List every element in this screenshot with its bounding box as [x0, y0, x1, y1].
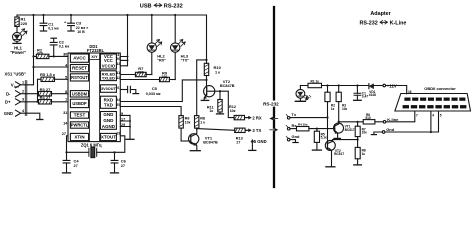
resistor R8 — [195, 116, 206, 129]
svg-text:8: 8 — [65, 90, 67, 94]
pin 4 GND — [16, 110, 21, 116]
pin TEST box — [70, 112, 88, 118]
resistor R9 — [120, 70, 175, 81]
capacitor C4 — [63, 151, 80, 173]
svg-text:0,1 мк: 0,1 мк — [48, 27, 59, 31]
node Tx terminal — [286, 112, 328, 119]
transistor VT2 (right) BC817 — [325, 140, 344, 167]
svg-text:10 В: 10 В — [77, 30, 85, 34]
svg-text:"TX": "TX" — [181, 59, 190, 63]
resistor R1 (right) — [308, 79, 322, 87]
capacitor C5 — [120, 86, 160, 96]
svg-text:Gnd: Gnd — [386, 127, 395, 132]
svg-text:GND: GND — [4, 111, 13, 116]
left pin numbers — [62, 53, 68, 136]
svg-text:3V3OUT: 3V3OUT — [101, 87, 116, 91]
svg-text:3: 3 — [22, 98, 24, 102]
svg-text:R4 27: R4 27 — [40, 95, 51, 100]
svg-text:27: 27 — [236, 140, 240, 144]
svg-text:28: 28 — [116, 131, 120, 135]
svg-text:27: 27 — [62, 132, 66, 136]
pin AVCC box — [70, 54, 88, 62]
svg-text:220: 220 — [162, 75, 168, 79]
wire OBD pin7 to K-line — [386, 111, 418, 122]
svg-text:510: 510 — [365, 116, 371, 120]
svg-text:11: 11 — [116, 71, 120, 75]
pin GND AGND box — [100, 112, 116, 130]
wire VT2 collector line — [333, 139, 358, 141]
resistor R3 (right) — [336, 86, 347, 122]
transistor VT1 BC847B — [181, 128, 218, 151]
wire +12V top line — [300, 85, 383, 87]
svg-text:AVCC: AVCC — [73, 56, 86, 61]
resistor R2 — [34, 48, 69, 59]
node top line junctions — [326, 84, 358, 86]
svg-text:BC847B: BC847B — [203, 140, 218, 144]
wire RESET tie — [34, 66, 69, 68]
wire TX line — [197, 129, 235, 131]
IC DD1 FT232BL — [68, 44, 120, 142]
svg-text:RS-232: RS-232 — [263, 101, 279, 106]
resistor R7 (right) — [355, 122, 367, 141]
svg-text:5 GND: 5 GND — [254, 139, 267, 144]
svg-text:TXLED: TXLED — [102, 76, 115, 81]
svg-text:30: 30 — [63, 53, 67, 57]
svg-text:GND: GND — [103, 112, 114, 117]
svg-text:5: 5 — [65, 76, 67, 80]
node Gnd terminal (obd side) — [371, 127, 394, 134]
svg-text:R4 10к: R4 10к — [298, 123, 308, 127]
svg-text:TXD: TXD — [104, 102, 114, 107]
svg-text:2: 2 — [22, 90, 24, 94]
wire arrow crossing divider RX — [270, 117, 278, 120]
svg-text:FT232BL: FT232BL — [87, 48, 105, 53]
svg-text:RS-232: RS-232 — [360, 20, 378, 26]
resistor R11 — [207, 90, 224, 114]
svg-text:0,033 мк: 0,033 мк — [146, 92, 161, 96]
svg-text:D-: D- — [6, 91, 11, 96]
svg-text:C5: C5 — [152, 86, 158, 91]
wire Vbus vertical — [21, 15, 34, 85]
svg-text:K-Line: K-Line — [390, 20, 407, 26]
wire VT2 base to R12 — [220, 91, 234, 117]
svg-text:R1 1к: R1 1к — [311, 79, 320, 83]
svg-text:1к: 1к — [331, 107, 335, 111]
wire R8 to +5V riser — [197, 60, 207, 116]
crystal ZQ1 6MHz — [67, 136, 125, 158]
wire OBD pins 4,5 ground — [385, 111, 442, 133]
svg-text:3 TX: 3 TX — [252, 128, 261, 133]
svg-text:Gnd: Gnd — [292, 134, 301, 139]
resistor R3 — [39, 87, 69, 96]
svg-text:GND: GND — [103, 118, 114, 123]
resistor R5 (right) — [312, 128, 327, 151]
pin VCC VCCIO box — [100, 54, 116, 69]
pin 3V3OUT box — [100, 85, 116, 93]
ground — [37, 119, 43, 121]
svg-text:K-line: K-line — [387, 117, 399, 122]
svg-text:X/Y: X/Y — [91, 54, 98, 59]
resistor R12 — [229, 105, 246, 120]
pin USBDM box — [70, 91, 88, 97]
svg-text:27: 27 — [121, 164, 125, 168]
svg-text:PWRCTL: PWRCTL — [71, 123, 89, 128]
svg-text:2 RX: 2 RX — [252, 115, 262, 120]
svg-text:OBDII connector: OBDII connector — [424, 86, 456, 91]
resistor R6 — [179, 116, 191, 141]
svg-text:10к: 10к — [185, 121, 191, 125]
pin RESET box — [70, 65, 88, 72]
svg-text:R3 27: R3 27 — [40, 87, 51, 92]
resistor R8 (right) — [354, 140, 366, 165]
svg-text:C6: C6 — [121, 159, 127, 164]
svg-text:6: 6 — [117, 86, 119, 90]
svg-text:Adapter: Adapter — [370, 11, 391, 17]
svg-text:31: 31 — [63, 111, 67, 115]
svg-text:1: 1 — [22, 81, 24, 85]
svg-text:VCCIO: VCCIO — [102, 64, 116, 69]
svg-text:10к: 10к — [362, 131, 368, 135]
svg-text:USBDM: USBDM — [72, 91, 88, 96]
svg-text:RS-232: RS-232 — [164, 3, 183, 9]
node K-line terminal — [375, 117, 399, 123]
svg-text:C4: C4 — [74, 159, 80, 164]
svg-text:470: 470 — [37, 52, 43, 56]
pin 3 D+ — [16, 99, 21, 105]
svg-text:BC817: BC817 — [345, 128, 355, 132]
pin PWRCTL box — [70, 122, 88, 128]
svg-text:7: 7 — [416, 114, 418, 118]
svg-text:1к: 1к — [209, 109, 213, 113]
capacitor C6 — [111, 151, 127, 173]
wire chip GND bus — [120, 115, 134, 139]
LED HL1 "Power" — [10, 29, 27, 56]
connector XS1 USB — [4, 72, 43, 120]
node Rx terminal — [286, 123, 297, 130]
wire +5V top rail — [17, 14, 207, 16]
svg-text:D+: D+ — [5, 100, 11, 105]
resistor R7 — [120, 66, 152, 77]
transistor VT2 BC847B — [201, 79, 234, 100]
wire VCC pins bus — [120, 15, 128, 66]
wire RXD link — [120, 80, 206, 102]
pin USBDP box — [70, 99, 88, 107]
pin XTOUT box — [100, 133, 116, 140]
svg-text:Tx: Tx — [292, 112, 297, 117]
resistor R1 — [15, 15, 28, 32]
title Adapter RS-232 <-> K-Line — [360, 11, 407, 26]
capacitor C3 — [64, 15, 88, 34]
svg-text:10к: 10к — [230, 109, 236, 113]
OBDII connector — [395, 86, 471, 111]
svg-text:"RX": "RX" — [157, 59, 166, 63]
svg-text:27: 27 — [74, 164, 78, 168]
svg-text:AGND: AGND — [102, 124, 116, 129]
wire +12V to OBD pin16 — [386, 86, 407, 94]
pin 1 Vbus — [16, 82, 21, 88]
svg-text:1 к: 1 к — [215, 70, 220, 74]
diode VD1 — [369, 84, 376, 98]
svg-text:5: 5 — [440, 114, 442, 118]
LED HL3 "TX" — [171, 15, 190, 80]
resistor R13 — [235, 128, 247, 144]
title USB <-> RS-232 — [140, 3, 183, 9]
pin 2 D- — [16, 91, 21, 97]
node rail junction dots — [32, 14, 176, 16]
svg-text:USB: USB — [140, 3, 152, 9]
svg-text:220: 220 — [21, 21, 28, 26]
svg-text:RESET: RESET — [72, 66, 87, 71]
resistor R6 (right) — [338, 113, 375, 124]
wire TXD link — [120, 107, 181, 116]
svg-text:7: 7 — [65, 98, 67, 102]
node 2 RX terminal — [246, 115, 262, 120]
svg-text:0,1 мк: 0,1 мк — [59, 45, 70, 49]
svg-text:4: 4 — [432, 114, 434, 118]
svg-text:BC817: BC817 — [334, 152, 344, 156]
wire arrow crossing divider TX — [270, 128, 278, 131]
svg-text:XTOUT: XTOUT — [101, 135, 116, 140]
divider line — [263, 7, 279, 187]
svg-text:XS1 "USB": XS1 "USB" — [5, 72, 26, 77]
svg-text:10к: 10к — [342, 107, 348, 111]
svg-text:5,1к: 5,1к — [321, 136, 327, 140]
svg-text:VCC: VCC — [104, 58, 113, 63]
resistor R4 — [36, 95, 68, 104]
resistor R5 — [38, 72, 69, 102]
svg-text:TEST: TEST — [74, 113, 86, 118]
svg-text:USBDP: USBDP — [72, 101, 87, 106]
transistor VT1 (right) BC817 — [334, 121, 355, 139]
node 3 TX terminal — [246, 128, 261, 133]
svg-text:1к: 1к — [362, 152, 366, 156]
LED HL2 "RX" — [147, 15, 166, 75]
svg-text:bus: bus — [14, 85, 20, 89]
svg-text:R10: R10 — [214, 65, 222, 70]
node Gnd terminal (pc side) — [286, 134, 300, 143]
resistor R4 (right) — [297, 123, 335, 131]
svg-text:0,47: 0,47 — [362, 95, 368, 99]
pin RXD TXD box — [100, 96, 116, 108]
svg-text:220: 220 — [138, 70, 144, 74]
svg-text:"Power": "Power" — [10, 50, 26, 55]
resistor R10 — [204, 15, 221, 86]
capacitor C1 — [40, 15, 59, 31]
right pin numbers — [116, 53, 125, 136]
svg-text:R5 1,5 к: R5 1,5 к — [40, 72, 55, 77]
capacitor C2 — [50, 38, 69, 57]
svg-text:XTIN: XTIN — [74, 135, 84, 140]
pin RSTOUT box — [70, 74, 88, 81]
svg-text:4148: 4148 — [369, 93, 376, 97]
resistor R2 (right) — [325, 86, 335, 146]
svg-text:1 к: 1 к — [200, 121, 205, 125]
pin XTIN box — [70, 133, 88, 140]
svg-text:BC847B: BC847B — [220, 84, 235, 88]
LED HL1 (right) — [295, 86, 312, 102]
svg-text:RSTOUT: RSTOUT — [71, 75, 88, 80]
pin RXLED TXLED box — [100, 71, 116, 81]
capacitor C1 (right) — [354, 86, 369, 101]
node 5 GND terminal — [249, 139, 267, 151]
node +12V terminal — [383, 83, 397, 88]
